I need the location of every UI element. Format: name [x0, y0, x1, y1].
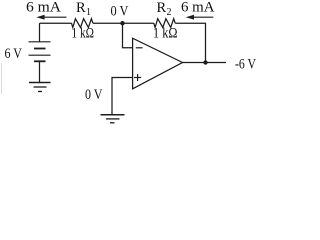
wire battery top to R1 [40, 22, 72, 24]
node output junction dot [203, 60, 207, 64]
resistor R1 [72, 19, 93, 28]
svg-text:6 mA: 6 mA [181, 0, 215, 16]
ground left [29, 83, 51, 92]
op-amp U1 triangle [133, 38, 183, 89]
wire feedback from R2 down to output node [175, 23, 205, 62]
svg-text:1 kΩ: 1 kΩ [153, 26, 178, 42]
node 0V junction dot [120, 21, 124, 25]
svg-text:1: 1 [86, 7, 91, 18]
svg-text:0 V: 0 V [111, 4, 129, 20]
svg-text:-6 V: -6 V [235, 56, 256, 72]
svg-text:1 kΩ: 1 kΩ [72, 26, 95, 42]
wire inverting input branch [123, 23, 133, 48]
resistor R2 [154, 19, 175, 28]
current arrow left (6 mA) [36, 15, 66, 20]
svg-text:6 V: 6 V [5, 46, 23, 62]
wire noninverting input branch [112, 78, 132, 115]
wire battery bottom lead [39, 61, 41, 82]
wire R1 to R2 through node 0V [93, 22, 154, 24]
svg-text:R: R [157, 0, 167, 16]
svg-text:6 mA: 6 mA [26, 0, 62, 16]
svg-text:R: R [76, 0, 86, 16]
current arrow right (6 mA) [186, 15, 214, 20]
svg-text:2: 2 [167, 7, 172, 18]
wire output [183, 62, 227, 64]
battery V1 plates [29, 42, 51, 62]
svg-text:0 V: 0 V [85, 87, 103, 103]
wire battery top lead [39, 23, 41, 42]
op-amp minus marker [136, 47, 143, 49]
ground middle (noninverting) [101, 115, 125, 123]
op-amp plus marker [134, 74, 141, 81]
faint scan artifact left edge [1, 63, 3, 94]
